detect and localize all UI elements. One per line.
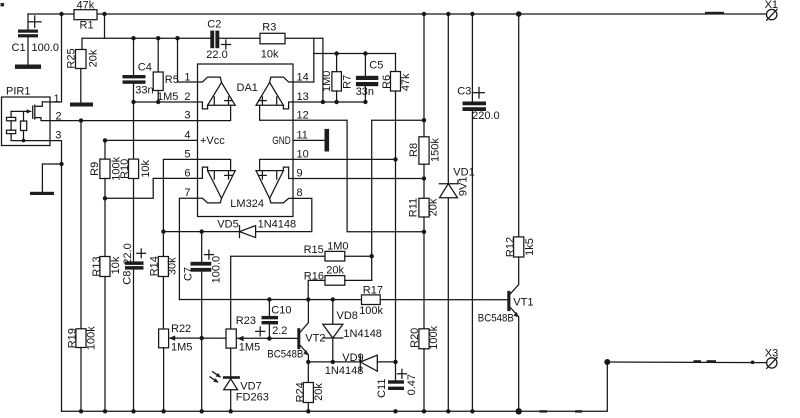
wire R22 wiper arm	[170, 337, 202, 339]
svg-text:GND: GND	[272, 135, 291, 147]
node junction riser on pin13 line	[321, 100, 325, 104]
node junction C10 top	[267, 297, 271, 301]
node junction VD8 top	[331, 297, 335, 301]
GND bar at pin11	[325, 129, 330, 152]
node junction C8 on rail	[131, 409, 135, 413]
wire DA1.2 non-inverting input to pin5	[198, 159, 231, 170]
svg-text:VT1: VT1	[513, 296, 533, 308]
node junction R5 bottom on pin2 line	[156, 100, 160, 104]
resistor R1	[74, 10, 97, 20]
wire DA1.2 inverting input hook to pin6	[198, 167, 208, 178]
resistor R23 trimmer	[226, 329, 236, 348]
svg-text:+Vcc: +Vcc	[200, 135, 225, 147]
svg-text:BC548B: BC548B	[267, 349, 303, 361]
svg-text:20k: 20k	[326, 265, 344, 277]
pyro element 1	[7, 117, 16, 120]
node junction R24 on rail	[306, 409, 310, 413]
capacitor C4	[123, 75, 146, 78]
wire DA1.1 output hook to pin1	[198, 77, 222, 82]
wire IC pin4 line	[105, 139, 198, 141]
svg-text:R10: R10	[119, 159, 131, 179]
wire R3 to pin13 riser	[322, 38, 324, 102]
wire feedback rail y53	[314, 53, 396, 55]
svg-text:R3: R3	[262, 21, 276, 33]
node junction C3 on rail	[470, 409, 474, 413]
svg-text:R15: R15	[304, 244, 324, 256]
svg-text:13: 13	[297, 91, 309, 103]
svg-text:C1: C1	[12, 42, 26, 54]
svg-text:10: 10	[297, 148, 309, 160]
svg-text:3: 3	[55, 130, 61, 142]
svg-text:10k: 10k	[261, 48, 279, 60]
diode VD9	[359, 355, 361, 371]
wire DA1.2 output hook to pin7	[198, 198, 222, 203]
svg-text:C8: C8	[122, 271, 134, 285]
capacitor C1	[27, 14, 29, 30]
svg-text:150k: 150k	[429, 138, 441, 162]
svg-text:220.0: 220.0	[472, 110, 500, 122]
capacitor C2	[210, 31, 214, 49]
node junction C5 bottom on pin13 line	[363, 100, 367, 104]
resistor R7	[336, 54, 338, 72]
svg-text:33n: 33n	[135, 85, 153, 97]
wire C4 R10 C8 column	[133, 38, 135, 75]
capacitor C11	[388, 380, 404, 383]
svg-text:10k: 10k	[140, 159, 152, 177]
svg-text:VD9: VD9	[342, 352, 363, 364]
wire pyro element lead	[10, 111, 12, 117]
wire X3 lead	[607, 361, 766, 364]
svg-text:R9: R9	[89, 162, 101, 176]
svg-text:10k: 10k	[110, 256, 122, 274]
svg-text:2: 2	[184, 91, 190, 103]
svg-text:BC548B: BC548B	[478, 313, 514, 325]
svg-text:7: 7	[184, 187, 190, 199]
svg-text:20k: 20k	[428, 198, 440, 216]
wire PIR pin2 to IC pin3	[50, 120, 198, 122]
wire PIR1 drain to pin1	[35, 102, 50, 106]
wire emitter to VD9	[308, 361, 360, 363]
svg-text:22.0: 22.0	[122, 243, 134, 264]
svg-text:12: 12	[297, 110, 309, 122]
node junction R9 bottom / pin6	[103, 196, 107, 200]
wire bottom ground rail	[62, 362, 608, 411]
svg-text:0.47: 0.47	[406, 374, 418, 395]
node junction VD8 bottom	[331, 360, 335, 364]
node junction R6 bottom on pin10 line	[393, 157, 397, 161]
node junction R7 top	[334, 51, 338, 55]
resistor R22 trimmer	[159, 329, 169, 348]
op-amp DA1.3 triangle	[256, 171, 283, 199]
svg-text:1M5: 1M5	[171, 341, 192, 353]
node junction C11 top	[393, 360, 397, 364]
node junction C1 top / PIR pin1 riser	[59, 12, 63, 16]
wire DA1.1 inverting input hook to pin2	[198, 102, 208, 109]
node junction C3 column on rail	[470, 12, 474, 16]
capacitor C7	[201, 232, 203, 262]
resistor R13	[100, 257, 110, 277]
svg-text:C7: C7	[183, 267, 195, 281]
svg-text:C3: C3	[457, 85, 471, 97]
node junction VD1 on rail	[446, 409, 450, 413]
svg-text:4: 4	[184, 129, 190, 141]
scan speck top-left corner	[1, 3, 5, 6]
svg-text:11: 11	[297, 129, 308, 141]
wire ground node to ground bar	[42, 164, 61, 192]
plus sign of C10	[256, 330, 265, 332]
wire DA1.3 output hook to pin8	[270, 198, 293, 203]
svg-text:22.0: 22.0	[206, 49, 227, 61]
svg-text:DA1: DA1	[237, 82, 258, 94]
wire PIR pin1 riser	[50, 14, 62, 102]
svg-text:20k: 20k	[313, 383, 325, 401]
svg-text:R6: R6	[381, 75, 393, 89]
svg-text:R23: R23	[236, 315, 256, 327]
svg-text:2: 2	[56, 110, 62, 122]
svg-text:C5: C5	[369, 59, 383, 71]
wire thick segments on X3 lead	[694, 360, 702, 362]
node junction VT1 emitter on rail	[516, 408, 522, 414]
svg-text:2.2: 2.2	[272, 325, 287, 337]
node junction C5 top	[363, 51, 367, 55]
wire top supply rail	[28, 13, 766, 15]
node junction R12 column on rail	[516, 11, 522, 17]
wire PIR1 source to pin2	[35, 118, 50, 121]
svg-text:1k5: 1k5	[524, 238, 536, 256]
resistor R25	[76, 50, 87, 69]
wire IC pin1 line	[178, 38, 198, 82]
svg-text:R1: R1	[80, 20, 94, 32]
svg-text:R12: R12	[505, 237, 517, 257]
svg-text:R14: R14	[149, 256, 161, 276]
wire thick segment on X1 lead	[705, 12, 724, 15]
node junction R13 on rail	[103, 409, 107, 413]
svg-text:R20: R20	[409, 328, 421, 348]
svg-text:1: 1	[184, 71, 190, 83]
wire pin7 output line y299	[179, 299, 507, 301]
svg-text:100.0: 100.0	[211, 256, 223, 284]
resistor R15	[231, 256, 325, 329]
svg-text:9: 9	[297, 167, 303, 179]
pyro element 2	[7, 130, 16, 133]
node junction C7 top on VD5 line	[200, 229, 204, 233]
wire DA1.3 non-inverting input to pin10	[260, 159, 293, 170]
wire IC pin5 hook	[163, 159, 197, 231]
svg-text:C2: C2	[207, 19, 221, 31]
svg-text:47k: 47k	[400, 73, 412, 91]
node junction R1 right riser	[102, 12, 106, 16]
svg-text:VD1: VD1	[453, 166, 474, 178]
node small junction on X3 lead	[751, 361, 755, 365]
wire IC pin11 line	[293, 139, 325, 141]
transistor Q2 VT2	[297, 328, 300, 349]
wire thick segments on ground rail	[540, 410, 548, 412]
svg-text:1: 1	[54, 93, 60, 105]
resistor R16	[308, 280, 325, 299]
svg-text:100.0: 100.0	[32, 42, 60, 54]
svg-text:R11: R11	[408, 198, 420, 217]
svg-text:C11: C11	[376, 379, 388, 398]
svg-text:3: 3	[184, 110, 190, 122]
svg-text:R19: R19	[66, 328, 78, 348]
svg-text:1N4148: 1N4148	[325, 365, 364, 377]
svg-text:R13: R13	[91, 256, 103, 276]
svg-text:5: 5	[184, 148, 190, 160]
capacitor C5	[364, 54, 366, 76]
resistor R11	[423, 179, 425, 199]
wire VT2 base line	[202, 337, 298, 339]
op-amp DA1.1 triangle	[208, 82, 236, 105]
wire R8 branch riser	[372, 120, 424, 280]
wire IC pin13 line	[293, 101, 365, 103]
wire IC pin2 line	[134, 101, 198, 103]
node junction R22 on rail	[161, 409, 165, 413]
svg-text:1M0: 1M0	[321, 71, 333, 92]
svg-text:LM324: LM324	[230, 198, 264, 210]
wire IC pin7 hook	[179, 198, 197, 299]
wire ground node riser to bottom rail	[61, 164, 63, 411]
wire VD5 line from pin5 node	[163, 231, 239, 233]
svg-text:33n: 33n	[356, 86, 374, 98]
node junction pin1 riser on Vref line	[175, 36, 179, 40]
svg-text:X3: X3	[765, 347, 778, 359]
node junction VD7 on rail	[229, 409, 233, 413]
wire IC pin6 hook	[105, 178, 198, 198]
svg-text:1M5: 1M5	[157, 91, 178, 103]
node junction R7 bottom on pin13 line	[334, 100, 338, 104]
diode VD1 zener	[447, 14, 449, 184]
node junction R8 column on rail	[422, 12, 426, 16]
node junction C10 bottom on base line	[267, 336, 271, 340]
node junction R22 wiper / C7 column	[200, 336, 204, 340]
PIR1 FET gate bar	[32, 106, 34, 118]
resistor R8	[423, 14, 425, 137]
node junction R20 on rail	[422, 409, 426, 413]
svg-text:1M0: 1M0	[327, 241, 348, 253]
wire DA1.3 inverting input hook to pin9	[283, 167, 293, 178]
node junction rail riser / X3 lead	[604, 359, 610, 365]
resistor R3	[260, 33, 285, 44]
terminal X1	[767, 9, 777, 19]
internal resistor of PIR1	[21, 121, 27, 131]
resistor R20	[419, 329, 429, 349]
svg-text:1N4148: 1N4148	[343, 328, 382, 340]
node junction R9 top	[103, 138, 107, 142]
node junction R19 top	[79, 118, 83, 122]
terminal X3	[767, 358, 777, 368]
resistor R17	[362, 295, 381, 305]
svg-text:VT2: VT2	[305, 333, 325, 345]
svg-text:R17: R17	[363, 284, 383, 296]
svg-text:R25: R25	[66, 48, 78, 68]
svg-text:R24: R24	[294, 382, 306, 402]
node junction VD1 column on rail	[446, 12, 450, 16]
resistor R10	[129, 159, 139, 178]
svg-text:R16: R16	[304, 271, 324, 283]
svg-text:R8: R8	[408, 143, 420, 157]
wire DA1.4 output hook to pin14	[270, 77, 293, 82]
node junction C4 riser on Vref line	[131, 36, 135, 40]
svg-text:20k: 20k	[87, 49, 99, 67]
wire PIR1 internal bottom to pin3	[11, 140, 50, 142]
svg-text:8: 8	[297, 187, 303, 199]
wire IC pin10 line	[293, 158, 396, 160]
op-amp DA1.2 triangle	[208, 171, 236, 199]
wire IC pin9 line	[293, 178, 424, 180]
node junction C7 on rail	[200, 409, 204, 413]
wire DA1.4 non-inverting input to pin12	[260, 105, 293, 120]
svg-text:R22: R22	[171, 323, 191, 335]
resistor R14	[162, 232, 164, 257]
node junction C11 on rail	[393, 409, 397, 413]
capacitor C10	[268, 300, 270, 316]
transistor Q1 VT1	[507, 291, 510, 311]
op-amp DA1.4 triangle	[256, 82, 283, 105]
svg-text:100k: 100k	[428, 325, 440, 349]
ground bar near PIR1	[30, 192, 54, 195]
PIR1 FET channel	[34, 105, 36, 119]
node junction internal resistor bottom	[22, 139, 26, 143]
node junction VT2 collector on y299 line	[306, 297, 310, 301]
op-amp U1 LM324 package box	[198, 64, 294, 217]
node junction R8 top	[422, 118, 426, 122]
svg-text:100k: 100k	[359, 305, 383, 317]
svg-text:R7: R7	[341, 75, 353, 89]
svg-text:PIR1: PIR1	[6, 86, 30, 98]
svg-text:9V1: 9V1	[457, 177, 469, 197]
node junction R8 bottom on pin9 line	[422, 176, 426, 180]
resistor R9	[104, 140, 106, 159]
capacitor C3	[471, 14, 473, 102]
svg-text:FD263: FD263	[236, 391, 269, 403]
PIR1 sensor box	[2, 97, 51, 146]
plus sign of C8	[137, 252, 146, 254]
wire PIR pin3 to ground node	[50, 141, 62, 164]
svg-text:R5: R5	[165, 74, 179, 86]
node junction R11 bottom / pin12 line	[422, 230, 426, 234]
wire IC pin12 line	[293, 120, 424, 232]
node junction R5 riser on Vref line	[156, 36, 160, 40]
plus sign of C7	[204, 254, 213, 256]
ground bar below C1	[15, 65, 41, 69]
diode VD8	[332, 300, 334, 325]
svg-text:1N4148: 1N4148	[258, 219, 297, 231]
node junction C4/R10 on pin2 line	[131, 100, 135, 104]
svg-text:C4: C4	[138, 61, 152, 73]
node junction R19 on rail	[79, 409, 83, 413]
svg-text:100k: 100k	[86, 326, 98, 350]
node junction R15 right on R8 riser	[370, 254, 374, 258]
wire DA1.4 inverting input hook to pin13	[283, 102, 293, 109]
wire IC pin8 hook to VD5 line	[256, 198, 312, 231]
photodiode VD7	[223, 376, 240, 379]
resistor R12	[518, 14, 520, 237]
svg-text:C10: C10	[271, 305, 291, 317]
resistor R24	[307, 362, 309, 383]
wire IC pin14 line	[293, 38, 314, 82]
svg-text:6: 6	[184, 167, 190, 179]
svg-text:14: 14	[297, 71, 309, 83]
node junction pin5 riser / R14	[161, 229, 165, 233]
resistor R6	[395, 54, 397, 72]
diode VD5	[239, 226, 241, 238]
svg-text:1M5: 1M5	[239, 341, 260, 353]
svg-text:X1: X1	[765, 0, 778, 11]
svg-text:30k: 30k	[167, 257, 179, 275]
capacitor C8	[125, 261, 144, 265]
svg-text:VD5: VD5	[217, 219, 238, 231]
wire R1 right riser to Vref line	[104, 14, 106, 38]
wire DA1.1 non-inverting input to pin3	[198, 105, 231, 120]
ground bar below R25	[70, 103, 93, 107]
svg-text:47k: 47k	[77, 0, 95, 12]
resistor R5	[157, 38, 159, 72]
resistor R19	[80, 121, 82, 329]
wire PIR1 gate line with arrow	[11, 110, 31, 112]
wire Vref line y38	[82, 38, 210, 49]
svg-text:VD8: VD8	[337, 310, 358, 322]
node junction VT2 emitter line	[306, 360, 310, 364]
node junction ground node	[59, 162, 63, 166]
